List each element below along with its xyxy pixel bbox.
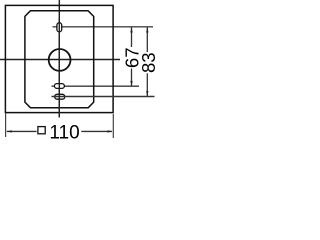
inner chamfered plate body (25, 11, 94, 108)
bottom dimension line right segment (81, 130, 112, 132)
arrow down 83 (146, 91, 148, 96)
extension line from upper bottom slot center (52, 85, 140, 87)
lower bottom slot (horizontal stadium) (55, 94, 65, 99)
top mounting slot (vertical stadium) (57, 23, 62, 32)
extension line from top slot center (53, 26, 154, 28)
dimension line 67 lower segment (131, 69, 133, 87)
vertical centerline (58, 0, 60, 118)
arrow left 110 (7, 130, 12, 132)
extension line from lower bottom slot center (52, 96, 155, 98)
center hole circle (49, 49, 71, 71)
arrow up 67 (130, 27, 132, 32)
bottom-right extension line (112, 114, 114, 138)
svg-text:83: 83 (138, 52, 159, 73)
outer square plate (5, 5, 113, 112)
dimension line 83 upper segment (146, 27, 148, 52)
arrow up 83 (146, 27, 148, 32)
arrow down 67 (130, 81, 132, 86)
arrow right 110 (107, 130, 112, 132)
svg-text:110: 110 (49, 123, 79, 144)
square symbol of square-110 (38, 127, 45, 134)
horizontal centerline (0, 59, 120, 61)
bottom dimension line left segment (7, 130, 37, 132)
dimension line 83 lower segment (146, 73, 148, 96)
vertical centerline over slots (58, 18, 60, 118)
bottom-left extension line (5, 113, 7, 137)
upper bottom slot (horizontal stadium) (54, 84, 64, 89)
dimension line 67 upper segment (131, 27, 133, 47)
